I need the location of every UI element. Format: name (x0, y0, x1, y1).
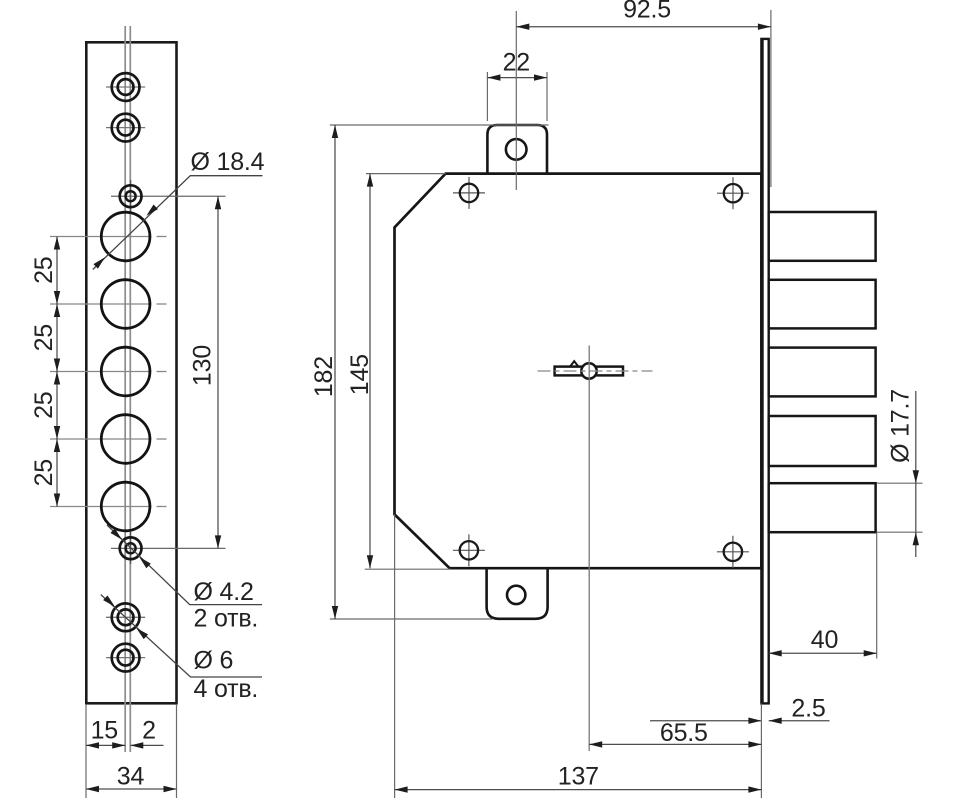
dimension 22 (487, 77, 547, 79)
screw hole bottom-left (453, 549, 485, 551)
svg-text:Ø 18.4: Ø 18.4 (191, 148, 265, 176)
svg-text:130: 130 (189, 345, 217, 386)
leader O6 (101, 595, 262, 677)
centerline hole O6 bottom2 (106, 657, 145, 659)
faceplate edge view (761, 39, 768, 704)
dimension 65.5 (589, 743, 761, 745)
svg-text:34: 34 (117, 762, 145, 790)
svg-text:25: 25 (30, 256, 58, 283)
dimension 15 (86, 744, 125, 746)
keyhole vertical centerline / 65.5 extension (588, 346, 590, 752)
hole O6 bottom2 (112, 644, 140, 672)
svg-text:25: 25 (30, 459, 58, 486)
faceplate lower extension line (760, 704, 762, 799)
svg-text:Ø 17.7: Ø 17.7 (887, 389, 915, 463)
leader O4.2 (107, 525, 262, 605)
svg-text:40: 40 (811, 626, 838, 654)
centerline hole O6 top2 (106, 127, 145, 129)
dimension 34 (86, 788, 177, 790)
dimension 182 extension lines (330, 124, 549, 126)
centerline big circle 2 (50, 303, 152, 305)
dimension 17.7 line (915, 391, 917, 557)
svg-text:2: 2 (142, 717, 156, 745)
svg-text:Ø 6: Ø 6 (194, 647, 234, 675)
svg-text:92.5: 92.5 (623, 0, 671, 24)
bolt 5 (769, 483, 876, 532)
big hole O18.4 #3 (101, 347, 150, 396)
vertical centerline B (x=130) (129, 26, 131, 752)
keyhole boss (581, 363, 596, 378)
svg-text:182: 182 (310, 356, 338, 397)
bolt 1 (769, 212, 876, 261)
keyhole horizontal centerline (538, 370, 653, 372)
dimension 137 (395, 789, 762, 791)
keyhole slot (555, 367, 623, 376)
screw hole top-right (717, 192, 749, 194)
big hole O18.4 #1 (101, 212, 150, 261)
centerline hole O6 top1 (106, 86, 145, 88)
hole O6 bottom1 (112, 603, 140, 631)
dimension 182 (334, 125, 336, 619)
svg-text:145: 145 (346, 354, 374, 395)
dimension 92.5 extension lines (515, 11, 517, 190)
big hole O18.4 #5 (101, 482, 150, 531)
dimension 145 (369, 174, 371, 569)
centerline hole O4.2 top (extension of 130 dim) (111, 195, 226, 197)
leader O18.4 (93, 176, 263, 270)
body left extension line (394, 515, 396, 799)
top tab hole (506, 139, 527, 160)
screw hole bottom-right (717, 551, 749, 553)
svg-text:25: 25 (30, 324, 58, 351)
dimension 145 extension lines (366, 173, 446, 175)
big hole O18.4 #4 (101, 415, 150, 464)
lock body outline (395, 174, 762, 569)
bottom tab hole (507, 586, 525, 604)
dimension 17.7 extension lines (877, 482, 923, 484)
dimension 22 extension lines (486, 72, 488, 121)
hole O6 top2 (112, 114, 140, 142)
extension lines below faceplate (85, 704, 87, 798)
dimension 40 (769, 652, 877, 654)
centerline hole O6 bottom1 (106, 616, 145, 618)
dimension chain 25 x4 (56, 237, 58, 305)
hole O4.2 bottom (120, 537, 142, 559)
svg-text:65.5: 65.5 (660, 719, 708, 747)
screw hole top-left (453, 192, 485, 194)
bolt 3 (769, 348, 876, 397)
centerline hole O4.2 bottom (extension of 130 dim) (111, 547, 226, 549)
hole O6 top1 (112, 73, 140, 101)
bolt 4 (769, 416, 876, 466)
bottom mounting tab (487, 567, 548, 619)
top mounting tab (487, 125, 547, 175)
svg-text:Ø 4.2: Ø 4.2 (194, 578, 254, 606)
svg-text:2.5: 2.5 (791, 695, 825, 723)
svg-text:15: 15 (91, 717, 118, 745)
dimension 92.5 (516, 26, 771, 28)
hole O4.2 top (120, 185, 142, 207)
centerline big circle 1 (50, 236, 152, 238)
vertical centerline A (x=125) (124, 26, 126, 752)
svg-text:4 отв.: 4 отв. (194, 675, 259, 703)
centerline big circle 4 (50, 438, 152, 440)
centerline big circle 5 (50, 506, 152, 508)
dimension 40 extension line (876, 533, 878, 659)
centerline big circle 3 (50, 371, 152, 373)
dimension 2.5 (650, 720, 761, 722)
svg-text:2 отв.: 2 отв. (194, 605, 259, 633)
faceplate outline (86, 42, 176, 703)
big hole O18.4 #2 (101, 280, 150, 329)
RIGHT VIEW : lock body (310, 0, 923, 798)
svg-text:137: 137 (558, 763, 599, 791)
dimension 130 (217, 196, 219, 548)
dimension 2 tail (130, 744, 163, 746)
keyhole notch (570, 361, 578, 366)
bolt 2 (769, 280, 876, 329)
svg-text:25: 25 (30, 391, 58, 418)
LEFT VIEW : faceplate front (30, 26, 265, 798)
